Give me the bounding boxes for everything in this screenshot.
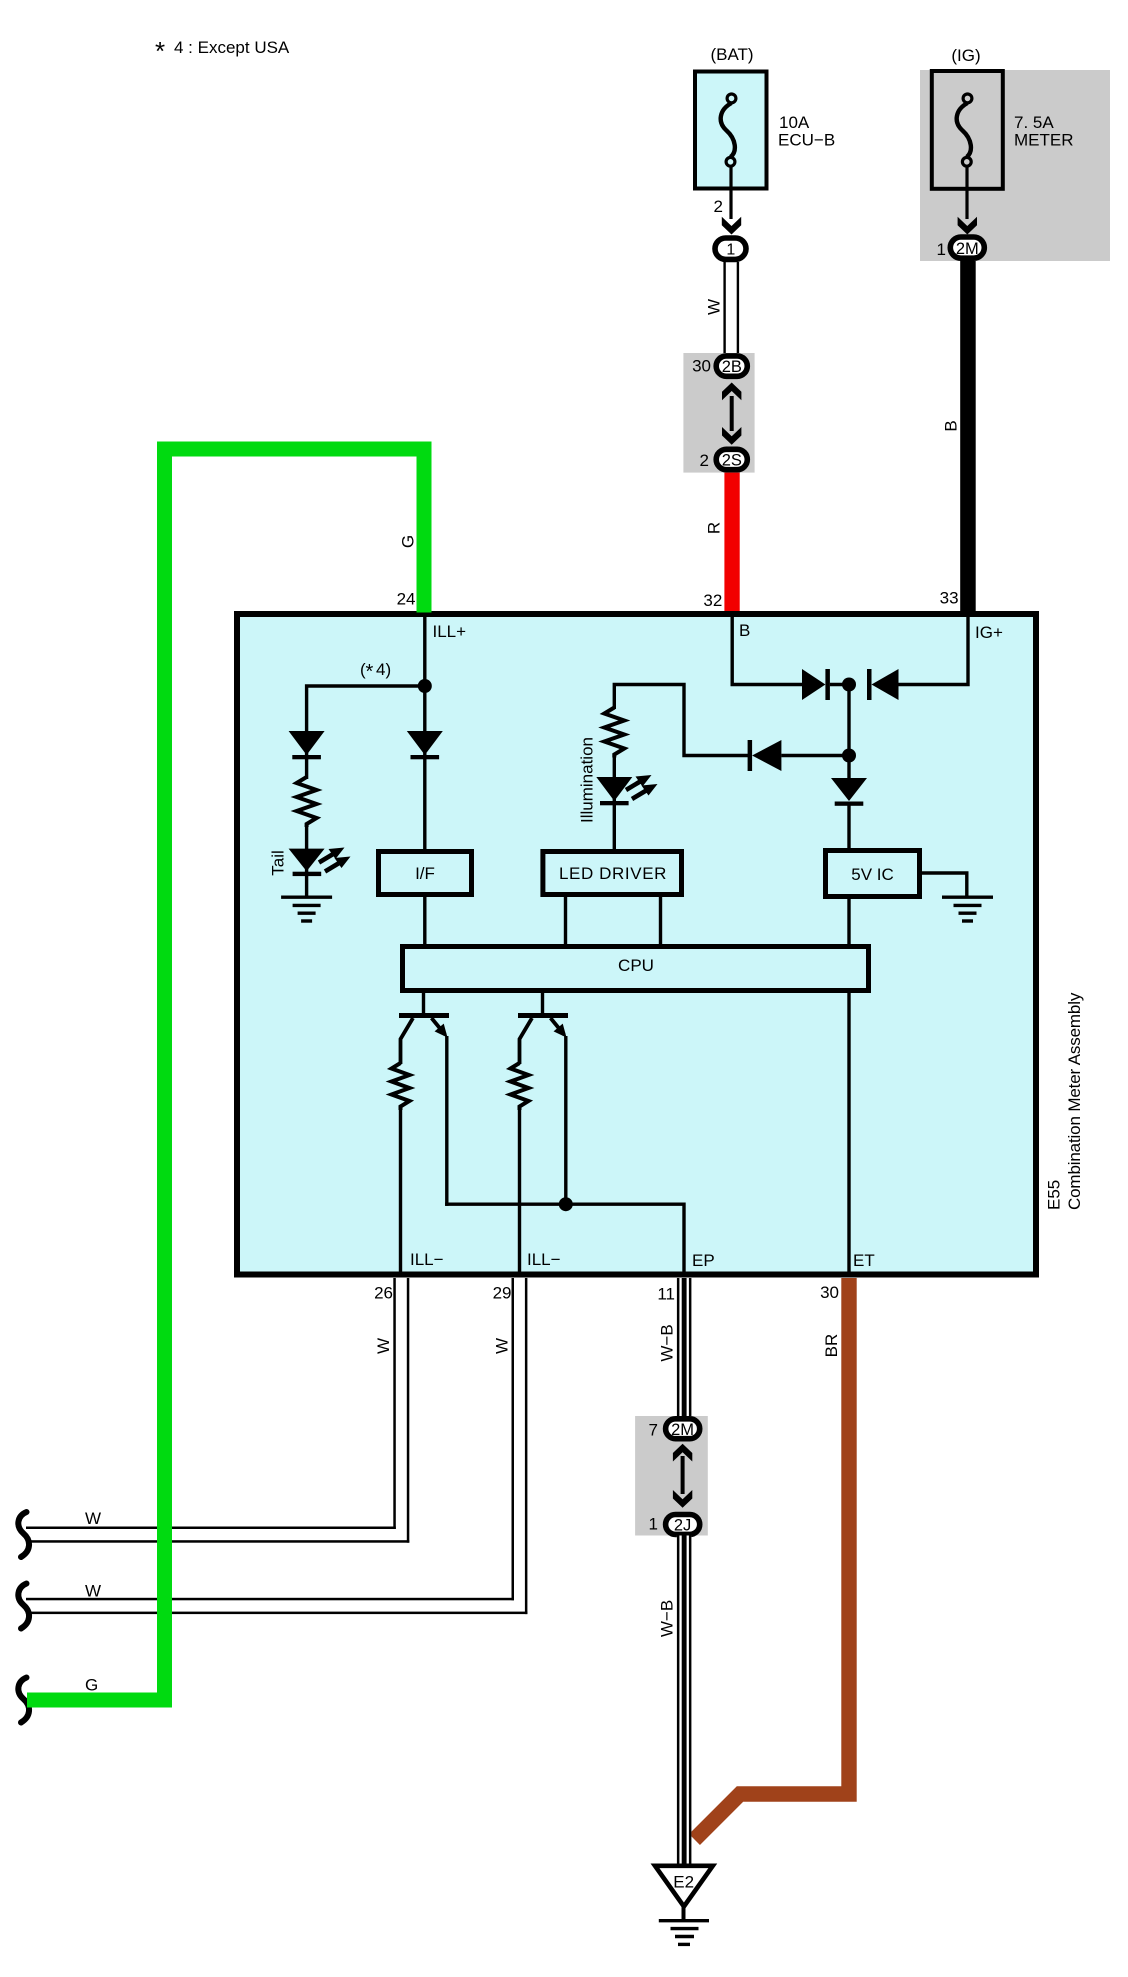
wire ILL+ vertical xyxy=(423,617,426,851)
ground E2 lines xyxy=(659,1921,709,1945)
resistor R4 (Q2 emitter) xyxy=(511,1063,529,1110)
node B/IG+ xyxy=(842,678,856,692)
svg-text:ECU−B: ECU−B xyxy=(778,131,835,150)
diode D1 (tail branch) xyxy=(289,731,325,755)
connector squiggle 1 xyxy=(18,1512,29,1557)
wire W pin 26 (double line) xyxy=(393,1278,396,1529)
svg-text:CPU: CPU xyxy=(618,956,654,975)
wire W pin 26 horizontal run xyxy=(26,1527,396,1530)
ground (5V IC) xyxy=(942,897,993,921)
svg-text:Tail: Tail xyxy=(269,850,288,876)
svg-text:W: W xyxy=(85,1582,101,1601)
svg-text:4 : Except USA: 4 : Except USA xyxy=(174,38,290,57)
svg-text:IG+: IG+ xyxy=(975,623,1003,642)
wire W pin 29 horizontal run xyxy=(26,1598,514,1601)
transistor Q1 base wire xyxy=(422,991,425,1015)
svg-text:BR: BR xyxy=(822,1334,841,1358)
svg-text:30: 30 xyxy=(820,1283,839,1302)
wire B (black) 2M to pin 33 xyxy=(960,261,976,613)
svg-text:EP: EP xyxy=(692,1251,715,1270)
svg-text:LED DRIVER: LED DRIVER xyxy=(559,864,667,883)
svg-text:7. 5A: 7. 5A xyxy=(1014,113,1054,132)
svg-text:W−B: W−B xyxy=(658,1600,677,1637)
svg-text:33: 33 xyxy=(940,589,959,608)
wire EP horizontal and down xyxy=(445,1204,684,1274)
resistor R1 (tail) xyxy=(297,777,317,827)
fuse ECU-B symbol xyxy=(721,94,736,166)
svg-text:2: 2 xyxy=(700,451,709,470)
ground E2 triangle xyxy=(655,1866,713,1907)
svg-text:G: G xyxy=(399,535,418,548)
svg-text:W−B: W−B xyxy=(658,1324,677,1361)
svg-text:G: G xyxy=(85,1676,98,1695)
gray shield box around METER fuse xyxy=(920,70,1110,261)
svg-text:24: 24 xyxy=(397,590,416,609)
svg-text:E55: E55 xyxy=(1045,1180,1064,1210)
box CPU xyxy=(403,947,869,991)
svg-text:1: 1 xyxy=(649,1515,658,1534)
svg-text:E2: E2 xyxy=(673,1873,694,1892)
resistor R2 (illumination) xyxy=(604,708,624,758)
transistor Q2 base wire xyxy=(541,991,544,1015)
connector 2M oval xyxy=(950,237,984,258)
resistor R3 (Q1 emitter) xyxy=(392,1063,410,1110)
svg-text:ILL−: ILL− xyxy=(527,1250,561,1269)
wire R4 to pin 29 xyxy=(518,1108,521,1274)
wire fuse METER to connector 2M xyxy=(965,166,968,219)
box LED DRIVER xyxy=(543,852,682,895)
node EP xyxy=(559,1197,573,1211)
wire B pin down and right xyxy=(732,617,802,685)
svg-text:10A: 10A xyxy=(779,113,810,132)
wire W-B pin 11 (upper) xyxy=(677,1278,692,1418)
svg-text:32: 32 xyxy=(703,591,722,610)
ground (tail LED) xyxy=(281,897,332,921)
diode D3 (illumination feed) xyxy=(748,740,753,771)
wire Q1 collector down xyxy=(445,1036,448,1206)
wire D4 to node xyxy=(830,683,850,686)
connector squiggle 2 xyxy=(18,1584,29,1629)
diode D4 (from B) xyxy=(802,669,825,700)
svg-text:2B: 2B xyxy=(722,358,742,376)
connector squiggle 3 (green) xyxy=(18,1678,29,1723)
node 5V xyxy=(842,749,856,763)
arrow up (2M/2J) xyxy=(673,1444,692,1462)
LED tail arrows xyxy=(319,848,351,872)
arrow down to connector 1 xyxy=(722,217,741,235)
node junction ILL+ xyxy=(418,679,432,693)
svg-text:29: 29 xyxy=(493,1284,512,1303)
fuse METER box xyxy=(932,71,1003,189)
wire W (double line) connector 1 to 2B xyxy=(723,262,725,354)
svg-text:2M: 2M xyxy=(956,240,979,258)
svg-text:*: * xyxy=(366,661,374,683)
svg-text:W: W xyxy=(374,1338,393,1354)
diode D6 (to 5V IC) xyxy=(847,756,850,781)
arrow down (2M/2J) xyxy=(673,1490,692,1508)
wire IG+ pin down and left xyxy=(899,617,969,685)
wire D6 to 5V IC xyxy=(847,805,850,851)
wire 5V IC to CPU xyxy=(847,895,850,946)
svg-text:W: W xyxy=(705,299,724,315)
transistor Q1 xyxy=(399,1013,449,1018)
wire I/F to CPU xyxy=(423,895,426,946)
connector 2S oval xyxy=(716,449,747,469)
fuse METER symbol xyxy=(957,94,972,166)
wire G (green) from left connector to pin 24 xyxy=(27,449,424,1700)
transistor Q2 xyxy=(518,1013,568,1018)
wire 5V IC to ground xyxy=(920,873,967,897)
wire D3 to node xyxy=(781,754,850,757)
svg-text:11: 11 xyxy=(657,1285,675,1304)
svg-text:W: W xyxy=(85,1509,101,1528)
svg-text:30: 30 xyxy=(692,357,711,376)
svg-text:4): 4) xyxy=(376,660,391,679)
wire R3 to pin 26 xyxy=(399,1108,402,1274)
wire R (red) 2S to pin 32 xyxy=(724,473,739,613)
svg-text:2S: 2S xyxy=(722,451,742,469)
arrow down xyxy=(722,427,741,445)
wire resistor to LED tail xyxy=(305,825,308,897)
svg-text:METER: METER xyxy=(1014,131,1074,150)
svg-text:7: 7 xyxy=(649,1421,658,1440)
svg-text:1: 1 xyxy=(937,240,946,259)
svg-text:2M: 2M xyxy=(671,1421,694,1439)
wire Q2 collector down xyxy=(564,1036,567,1204)
svg-text:1: 1 xyxy=(726,242,735,259)
shaft (2M/2J) xyxy=(681,1456,685,1494)
note: *4 Except USA xyxy=(155,36,290,66)
connector junction 2M/2J gray box xyxy=(635,1416,708,1536)
svg-text:B: B xyxy=(739,621,750,640)
svg-text:2: 2 xyxy=(714,197,723,216)
connector 2J oval xyxy=(666,1515,700,1535)
svg-text:B: B xyxy=(942,420,961,431)
svg-text:Illumination: Illumination xyxy=(578,737,597,823)
wire fuse ECU-B to connector 1 xyxy=(729,166,732,219)
svg-text:5V IC: 5V IC xyxy=(851,865,894,884)
wire branch to tail diode xyxy=(307,686,425,779)
box 5V IC xyxy=(826,851,920,897)
svg-text:(IG): (IG) xyxy=(951,46,980,65)
box I/F xyxy=(379,852,472,895)
wire resistor to LED illumination xyxy=(613,755,616,851)
svg-text:Combination Meter Assembly: Combination Meter Assembly xyxy=(1065,992,1084,1210)
svg-text:26: 26 xyxy=(374,1284,393,1303)
svg-text:I/F: I/F xyxy=(415,864,435,883)
arrow down to 2M xyxy=(958,217,977,235)
svg-text:ILL+: ILL+ xyxy=(433,622,467,641)
diode D2 (ILL+) xyxy=(407,731,443,755)
connector 2M oval (bottom) xyxy=(666,1419,700,1439)
connector 1 oval xyxy=(715,238,746,259)
wire ET from CPU to pin 30 xyxy=(847,991,850,1274)
connector junction 2B/2S gray box xyxy=(683,353,754,473)
svg-text:ET: ET xyxy=(853,1251,875,1270)
svg-text:ILL−: ILL− xyxy=(410,1250,444,1269)
svg-text:2J: 2J xyxy=(674,1517,691,1535)
svg-text:(BAT): (BAT) xyxy=(710,45,753,64)
ground E2 stem xyxy=(682,1907,686,1920)
combination meter assembly box E55 xyxy=(237,614,1036,1275)
arrow up xyxy=(722,383,741,401)
diode D5 (from IG+) xyxy=(872,669,899,700)
wire BR (brown) pin 30 to E2 xyxy=(695,1278,850,1840)
shaft xyxy=(730,396,734,431)
wire LED DRIVER to CPU (right) xyxy=(659,895,662,946)
wire node down xyxy=(847,685,850,756)
wire LED DRIVER to CPU (left) xyxy=(564,895,567,946)
wire W-B 2J to E2 xyxy=(677,1536,692,1866)
connector 2B oval xyxy=(716,356,747,376)
svg-text:W: W xyxy=(492,1338,511,1354)
LED illumination xyxy=(596,777,632,801)
LED tail xyxy=(289,849,325,872)
fuse ECU-B box xyxy=(695,72,767,189)
wire illumination branch xyxy=(614,685,749,756)
svg-text:R: R xyxy=(705,522,724,534)
svg-text:*: * xyxy=(155,36,165,66)
wire W pin 29 (double line) xyxy=(512,1278,515,1600)
LED illumination arrows xyxy=(626,775,658,799)
